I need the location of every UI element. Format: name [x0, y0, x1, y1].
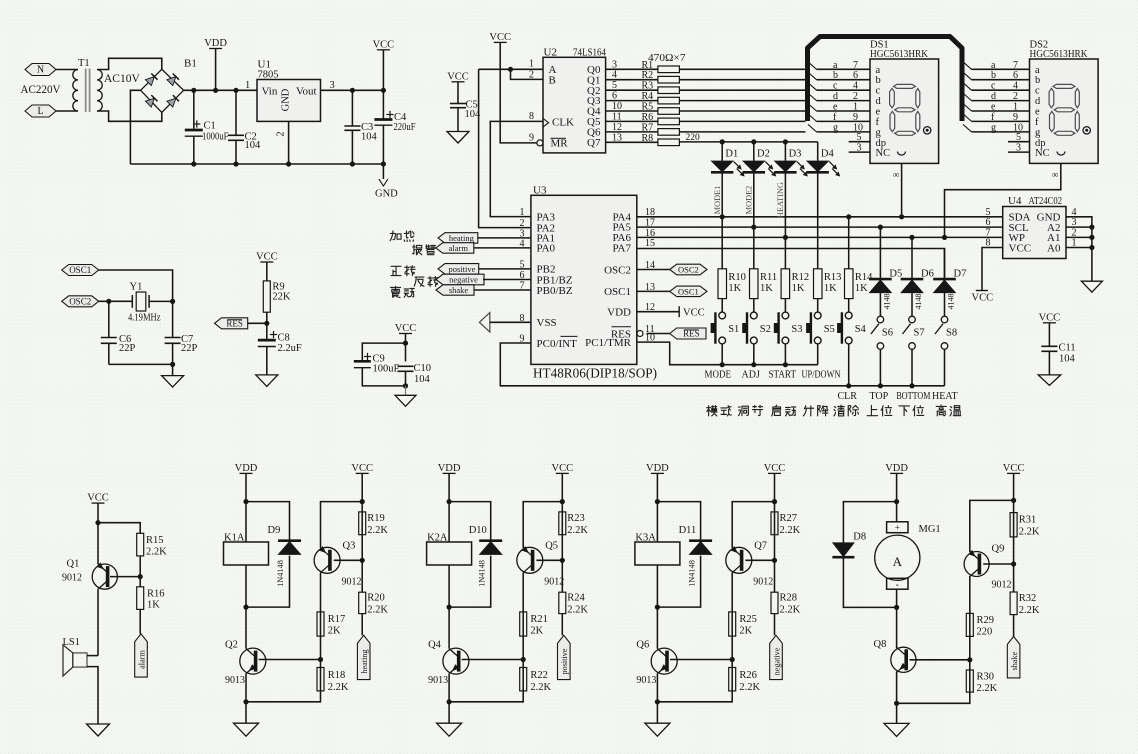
- svg-text:R8: R8: [642, 133, 654, 144]
- svg-text:shake: shake: [1010, 651, 1019, 670]
- svg-text:104: 104: [414, 374, 431, 385]
- svg-text:shake: shake: [449, 285, 469, 295]
- svg-text:HEAT: HEAT: [932, 391, 958, 402]
- power VCC Q7: [764, 463, 786, 502]
- diode D9 1N4148: [246, 525, 301, 607]
- svg-text:c: c: [1035, 86, 1040, 97]
- svg-text:VCC: VCC: [373, 39, 395, 50]
- svg-text:2: 2: [853, 91, 858, 102]
- wire DS2 segment c: [963, 81, 1030, 92]
- wire DS2 segment a: [963, 60, 1030, 71]
- svg-text:2.2uF: 2.2uF: [278, 343, 302, 354]
- svg-text:R24: R24: [567, 593, 585, 604]
- svg-text:c: c: [991, 81, 996, 92]
- svg-text:MODE: MODE: [705, 370, 732, 381]
- label CLR: [838, 391, 858, 402]
- svg-text:9: 9: [1013, 112, 1018, 123]
- svg-text:MODE2: MODE2: [744, 186, 753, 215]
- label UP/DOWN: [802, 370, 841, 381]
- svg-text:OSC1: OSC1: [604, 286, 631, 298]
- label AC220V: [21, 84, 62, 96]
- relay K3A: [635, 533, 680, 610]
- svg-text:VCC: VCC: [447, 71, 469, 82]
- svg-text:R3: R3: [642, 81, 654, 92]
- crystal Y1 4.19MHz: [128, 282, 175, 324]
- svg-text:c: c: [833, 81, 838, 92]
- wire VCC node to A and B: [479, 67, 543, 80]
- ground C11: [1038, 375, 1061, 386]
- wire DS2 segment f: [963, 112, 1030, 123]
- svg-text:R7: R7: [642, 122, 654, 133]
- svg-text:D11: D11: [679, 525, 697, 536]
- wire PA4 SDA line: [637, 214, 1003, 219]
- svg-text:Q7: Q7: [754, 541, 767, 552]
- svg-text:2.2K: 2.2K: [146, 547, 167, 558]
- label zhendong: [391, 287, 415, 298]
- power VDD MG1: [885, 463, 908, 522]
- wire DS2 segment d: [963, 91, 1030, 102]
- label AC10V: [104, 73, 140, 85]
- capacitor C10 104: [398, 363, 432, 395]
- wire DS2 NC stub: [1008, 143, 1030, 154]
- svg-text:2: 2: [276, 131, 287, 136]
- power VCC to MR: [489, 32, 536, 143]
- display DS1 HGC5613HRK: [870, 40, 939, 164]
- svg-text:1K: 1K: [147, 600, 160, 611]
- switch S8: [935, 316, 957, 386]
- label 470ohm x7: [648, 52, 686, 64]
- svg-text:5: 5: [857, 132, 862, 143]
- svg-text:S3: S3: [791, 324, 802, 335]
- svg-text:d: d: [833, 91, 838, 102]
- label xiawei: [899, 406, 924, 416]
- resistor R29 220: [966, 613, 994, 692]
- svg-text:1N4148: 1N4148: [477, 560, 486, 587]
- resistor R20 2.2K: [359, 592, 389, 635]
- led D1: [711, 142, 744, 176]
- svg-text:9: 9: [529, 133, 534, 144]
- svg-text:11: 11: [612, 111, 622, 122]
- svg-text:2K: 2K: [328, 626, 341, 637]
- svg-text:8: 8: [529, 111, 534, 122]
- svg-text:9012: 9012: [62, 573, 82, 584]
- svg-text:4: 4: [853, 81, 858, 92]
- svg-text:1: 1: [853, 102, 858, 113]
- svg-text:UP/DOWN: UP/DOWN: [802, 370, 841, 381]
- svg-text:VCC: VCC: [395, 323, 417, 334]
- svg-text:OSC2: OSC2: [678, 265, 699, 275]
- transistor Q6 9013: [636, 607, 732, 704]
- svg-text:6: 6: [612, 91, 617, 102]
- ground Q8: [884, 703, 909, 736]
- svg-text:R20: R20: [367, 593, 385, 604]
- switch S6: [871, 316, 893, 388]
- resistor R18 2.2K: [246, 668, 349, 702]
- flag RES net: [215, 318, 267, 329]
- svg-text:R15: R15: [146, 535, 164, 546]
- svg-text:PB0/BZ: PB0/BZ: [537, 285, 573, 297]
- resistor R5: [606, 101, 806, 114]
- power VCC pin12: [637, 306, 705, 318]
- svg-text:R26: R26: [739, 670, 757, 681]
- resistor R19 2.2K: [359, 502, 389, 593]
- wire R8 LED rail: [679, 139, 817, 144]
- flag positive PB2: [438, 264, 531, 275]
- svg-text:VCC: VCC: [489, 32, 511, 43]
- svg-text:1000uF: 1000uF: [202, 132, 229, 143]
- svg-text:VCC: VCC: [972, 293, 994, 304]
- resistor R10 1K: [718, 217, 746, 312]
- svg-text:104: 104: [361, 132, 378, 143]
- svg-text:D1: D1: [725, 149, 738, 160]
- svg-text:BOTTOM: BOTTOM: [896, 391, 930, 402]
- svg-text:104: 104: [245, 140, 262, 151]
- resistor R21 2K: [520, 612, 548, 691]
- wire secondary top to bridge: [97, 58, 162, 69]
- power VCC R9: [256, 252, 278, 281]
- wire DS2 common: [942, 163, 1061, 240]
- ground GND power: [375, 164, 398, 200]
- svg-text:CLK: CLK: [552, 116, 574, 128]
- svg-text:S2: S2: [760, 324, 771, 335]
- svg-text:C8: C8: [278, 333, 290, 344]
- wire VDD to D11: [657, 502, 700, 541]
- svg-text:R28: R28: [780, 593, 798, 604]
- capacitor C9 100uF: [354, 343, 406, 386]
- ground LS1: [87, 724, 110, 736]
- wire DS1 segment g: [808, 122, 870, 133]
- svg-text:MG1: MG1: [919, 524, 941, 535]
- svg-text:NC: NC: [1035, 148, 1050, 159]
- svg-text:R31: R31: [1019, 515, 1037, 526]
- wire D4 cathode: [817, 172, 819, 248]
- flag heating: [357, 635, 370, 679]
- capacitor C7: [165, 301, 198, 364]
- ground Q6: [645, 702, 670, 736]
- flag alarm PA0: [436, 243, 531, 254]
- svg-text:T1: T1: [78, 58, 90, 69]
- ground C10: [395, 395, 416, 406]
- svg-text:VCC: VCC: [1009, 242, 1032, 254]
- svg-text:VDD: VDD: [235, 463, 258, 474]
- wire Q1 collector: [97, 589, 99, 655]
- svg-text:NC: NC: [876, 148, 891, 159]
- svg-text:2.2K: 2.2K: [328, 682, 349, 693]
- label BOTTOM: [896, 391, 930, 402]
- svg-text:R18: R18: [328, 670, 346, 681]
- power VCC Q5: [552, 463, 574, 502]
- svg-text:3: 3: [612, 59, 617, 70]
- svg-text:ADJ: ADJ: [742, 370, 760, 381]
- svg-text:2.2K: 2.2K: [739, 682, 760, 693]
- button S2: [742, 312, 771, 367]
- svg-text:heating: heating: [360, 649, 369, 673]
- wire L to T1: [56, 110, 78, 112]
- svg-text:9012: 9012: [342, 577, 362, 588]
- wire VDD to D9: [246, 502, 290, 541]
- svg-text:S6: S6: [882, 328, 893, 339]
- diode D6 4148: [901, 237, 934, 316]
- flag OSC1: [62, 265, 99, 276]
- svg-text:CLR: CLR: [838, 391, 858, 402]
- power VDD K2A: [438, 463, 461, 542]
- svg-text:1K: 1K: [792, 283, 805, 294]
- wire PA2 to U2 data: [479, 69, 531, 227]
- svg-text:R4: R4: [642, 91, 654, 102]
- svg-text:negative: negative: [449, 275, 478, 285]
- label qidong: [772, 405, 796, 416]
- wire VDD to D8: [843, 502, 896, 543]
- svg-text:1N4148: 1N4148: [276, 560, 285, 587]
- svg-text:2: 2: [1013, 91, 1018, 102]
- svg-text:a: a: [833, 60, 838, 71]
- label jiare: [390, 231, 414, 242]
- flag shake PB0: [436, 285, 531, 295]
- resistor R2: [606, 70, 806, 83]
- svg-text:D10: D10: [469, 525, 487, 536]
- terminal N: [25, 64, 56, 76]
- svg-text:a: a: [876, 65, 881, 76]
- svg-text:GND: GND: [375, 189, 398, 200]
- diode D8: [832, 532, 896, 608]
- wire PA5 SCL line: [637, 225, 1003, 230]
- relay K2A: [427, 533, 472, 610]
- svg-text:Vout: Vout: [296, 86, 317, 98]
- svg-text:2K: 2K: [530, 626, 543, 637]
- wire VCC to R15: [98, 523, 140, 534]
- svg-text:7: 7: [853, 60, 858, 71]
- svg-text:22P: 22P: [181, 343, 198, 354]
- svg-text:1K: 1K: [824, 283, 837, 294]
- capacitor C8 2.2uF: [258, 331, 302, 375]
- wire DS1 NC stub: [849, 143, 870, 154]
- svg-text:alarm: alarm: [449, 243, 469, 253]
- svg-text:2.2K: 2.2K: [780, 605, 801, 616]
- resistor R27 2.2K: [771, 502, 801, 593]
- wire N to T1: [56, 69, 78, 71]
- wire DS2 segment b: [963, 70, 1030, 81]
- svg-text:e: e: [1035, 107, 1040, 118]
- svg-text:4148: 4148: [883, 294, 892, 310]
- svg-text:heating: heating: [449, 233, 475, 243]
- capacitor C2: [228, 90, 261, 164]
- svg-text:HEATING: HEATING: [776, 182, 785, 218]
- transistor Q2 9013: [225, 607, 321, 704]
- svg-text:R10: R10: [728, 272, 746, 283]
- flag RES pin11: [647, 328, 707, 339]
- power VCC Q3: [351, 463, 373, 502]
- svg-text:positive: positive: [560, 648, 569, 674]
- svg-text:1N4148: 1N4148: [687, 560, 696, 587]
- svg-text:12: 12: [612, 122, 622, 133]
- svg-text:VCC: VCC: [87, 493, 109, 504]
- transistor Q7 9012: [726, 499, 777, 612]
- button S4: [837, 312, 866, 388]
- terminal L: [25, 105, 56, 117]
- svg-text:D2: D2: [757, 149, 770, 160]
- wire U4 address pins: [1066, 217, 1095, 281]
- wire DS1 common: [893, 163, 904, 219]
- wire DS1 segment d: [808, 91, 870, 102]
- power VCC output: [373, 39, 395, 90]
- label fanzhuan: [414, 277, 438, 287]
- svg-text:R21: R21: [530, 614, 548, 625]
- regulator U1 7805: [245, 59, 335, 137]
- svg-text:U4: U4: [1008, 195, 1022, 207]
- ground Q2: [234, 702, 259, 736]
- resistor R6: [606, 111, 806, 124]
- svg-text:9: 9: [853, 112, 858, 123]
- bus to displays: [808, 37, 963, 122]
- label qingchu: [834, 405, 858, 416]
- wire D2 cathode: [744, 172, 753, 227]
- svg-text:MR: MR: [551, 138, 569, 150]
- power VDD K3A: [646, 463, 669, 542]
- button S5: [806, 312, 835, 365]
- svg-text:1K: 1K: [760, 283, 773, 294]
- svg-text:VDD: VDD: [607, 307, 631, 319]
- svg-text:OSC1: OSC1: [678, 287, 699, 297]
- svg-text:R19: R19: [367, 513, 385, 524]
- label START: [769, 370, 797, 381]
- svg-text:positive: positive: [448, 264, 475, 274]
- svg-text:D8: D8: [853, 532, 866, 543]
- svg-text:220uF: 220uF: [394, 122, 416, 133]
- svg-text:N: N: [37, 65, 44, 76]
- svg-text:L: L: [37, 106, 43, 117]
- svg-text:R30: R30: [977, 672, 995, 683]
- resistor R1: [606, 59, 806, 72]
- svg-text:2.2K: 2.2K: [367, 605, 388, 616]
- svg-text:g: g: [1035, 127, 1041, 138]
- svg-text:TOP: TOP: [870, 391, 889, 402]
- shift register U2 74LS164: [529, 47, 607, 153]
- svg-text:g: g: [833, 122, 838, 133]
- resistor R11 1K: [750, 227, 778, 312]
- svg-text:D3: D3: [789, 149, 802, 160]
- svg-text:Vin: Vin: [262, 86, 278, 98]
- svg-text:D4: D4: [821, 149, 835, 160]
- svg-text:R16: R16: [147, 589, 165, 600]
- svg-text:Q7: Q7: [587, 137, 601, 149]
- resistor R8: [606, 132, 680, 145]
- svg-text:D5: D5: [889, 269, 902, 280]
- svg-text:9013: 9013: [428, 675, 448, 686]
- svg-text:2.2K: 2.2K: [567, 605, 588, 616]
- label moshi: [707, 406, 732, 416]
- wire OSC1 net: [99, 270, 173, 301]
- capacitor C4: [374, 90, 415, 164]
- resistor R31 2.2K: [1010, 500, 1040, 592]
- svg-text:9012: 9012: [544, 577, 564, 588]
- diode D11 1N4148: [657, 525, 712, 607]
- svg-text:Q6: Q6: [636, 640, 649, 651]
- svg-text:9012: 9012: [992, 580, 1012, 591]
- svg-text:4148: 4148: [914, 294, 923, 310]
- svg-text:R29: R29: [977, 615, 995, 626]
- wire input rail: [184, 88, 257, 93]
- resistor R22 2.2K: [449, 668, 551, 702]
- svg-text:1K: 1K: [728, 283, 741, 294]
- display DS2 HGC5613HRK: [1030, 40, 1099, 164]
- svg-text:PC0/INT: PC0/INT: [537, 338, 578, 350]
- svg-text:g: g: [876, 127, 882, 138]
- power VCC Q9: [1003, 463, 1025, 501]
- resistor R4: [606, 91, 806, 104]
- label HT48R06: [533, 366, 657, 381]
- svg-text:S1: S1: [728, 324, 739, 335]
- label ADJ: [742, 370, 760, 381]
- ground C5: [447, 132, 469, 144]
- svg-text:2.2K: 2.2K: [780, 525, 801, 536]
- svg-text:2K: 2K: [739, 626, 752, 637]
- svg-text:1: 1: [520, 207, 525, 218]
- svg-text:d: d: [991, 91, 996, 102]
- power VDD K1A: [235, 463, 258, 542]
- svg-text:9013: 9013: [636, 675, 656, 686]
- svg-text:A: A: [893, 554, 903, 569]
- resistor R26 2.2K: [657, 668, 760, 702]
- svg-text:D9: D9: [268, 525, 281, 536]
- svg-text:VCC: VCC: [256, 252, 278, 263]
- capacitor C5: [450, 100, 481, 132]
- resistor R14 1K: [845, 217, 874, 312]
- svg-text:VDD: VDD: [204, 38, 227, 49]
- svg-text:5: 5: [612, 80, 617, 91]
- svg-text:VCC: VCC: [552, 463, 574, 474]
- svg-text:e: e: [876, 107, 881, 118]
- svg-text:R5: R5: [642, 102, 654, 113]
- relay K1A: [224, 533, 269, 610]
- svg-text:AC10V: AC10V: [104, 73, 140, 85]
- svg-text:5: 5: [1016, 132, 1021, 143]
- svg-text:HT48R06(DIP18/SOP): HT48R06(DIP18/SOP): [533, 366, 657, 381]
- label baojing: [412, 245, 435, 255]
- svg-text:2.2K: 2.2K: [977, 683, 998, 694]
- svg-text:dp: dp: [1035, 138, 1046, 149]
- wire bridge left to bottom rail: [130, 90, 140, 164]
- wire DS2 segment e: [963, 102, 1030, 113]
- svg-text:3: 3: [330, 80, 335, 91]
- wire VDD to D10: [449, 502, 491, 541]
- resistor R24 2.2K: [559, 592, 589, 635]
- svg-text:D7: D7: [954, 269, 967, 280]
- svg-text:e: e: [833, 102, 838, 113]
- svg-text:2.2K: 2.2K: [1019, 527, 1040, 538]
- wire D1 cathode: [713, 172, 722, 216]
- svg-text:1: 1: [529, 59, 534, 70]
- svg-text:C11: C11: [1059, 343, 1076, 354]
- svg-text:START: START: [769, 370, 797, 381]
- flag OSC2 output: [637, 264, 707, 275]
- svg-text:R13: R13: [824, 272, 842, 283]
- led D2: [743, 142, 776, 176]
- resistor R25 2K: [729, 612, 757, 691]
- resistor R15 2.2K: [137, 533, 167, 587]
- svg-text:b: b: [876, 75, 881, 86]
- svg-text:∞: ∞: [1052, 170, 1058, 180]
- svg-text:PA0: PA0: [537, 243, 556, 255]
- svg-text:3: 3: [857, 143, 862, 154]
- svg-text:a: a: [991, 60, 996, 71]
- label shengjiang: [803, 406, 827, 416]
- wire PA3 to U2 CLK: [490, 121, 543, 216]
- flag negative PB1: [436, 274, 531, 285]
- svg-text:Q5: Q5: [545, 541, 558, 552]
- label HEAT: [932, 391, 958, 402]
- svg-text:PA7: PA7: [612, 242, 631, 254]
- label 220 R8: [686, 133, 701, 143]
